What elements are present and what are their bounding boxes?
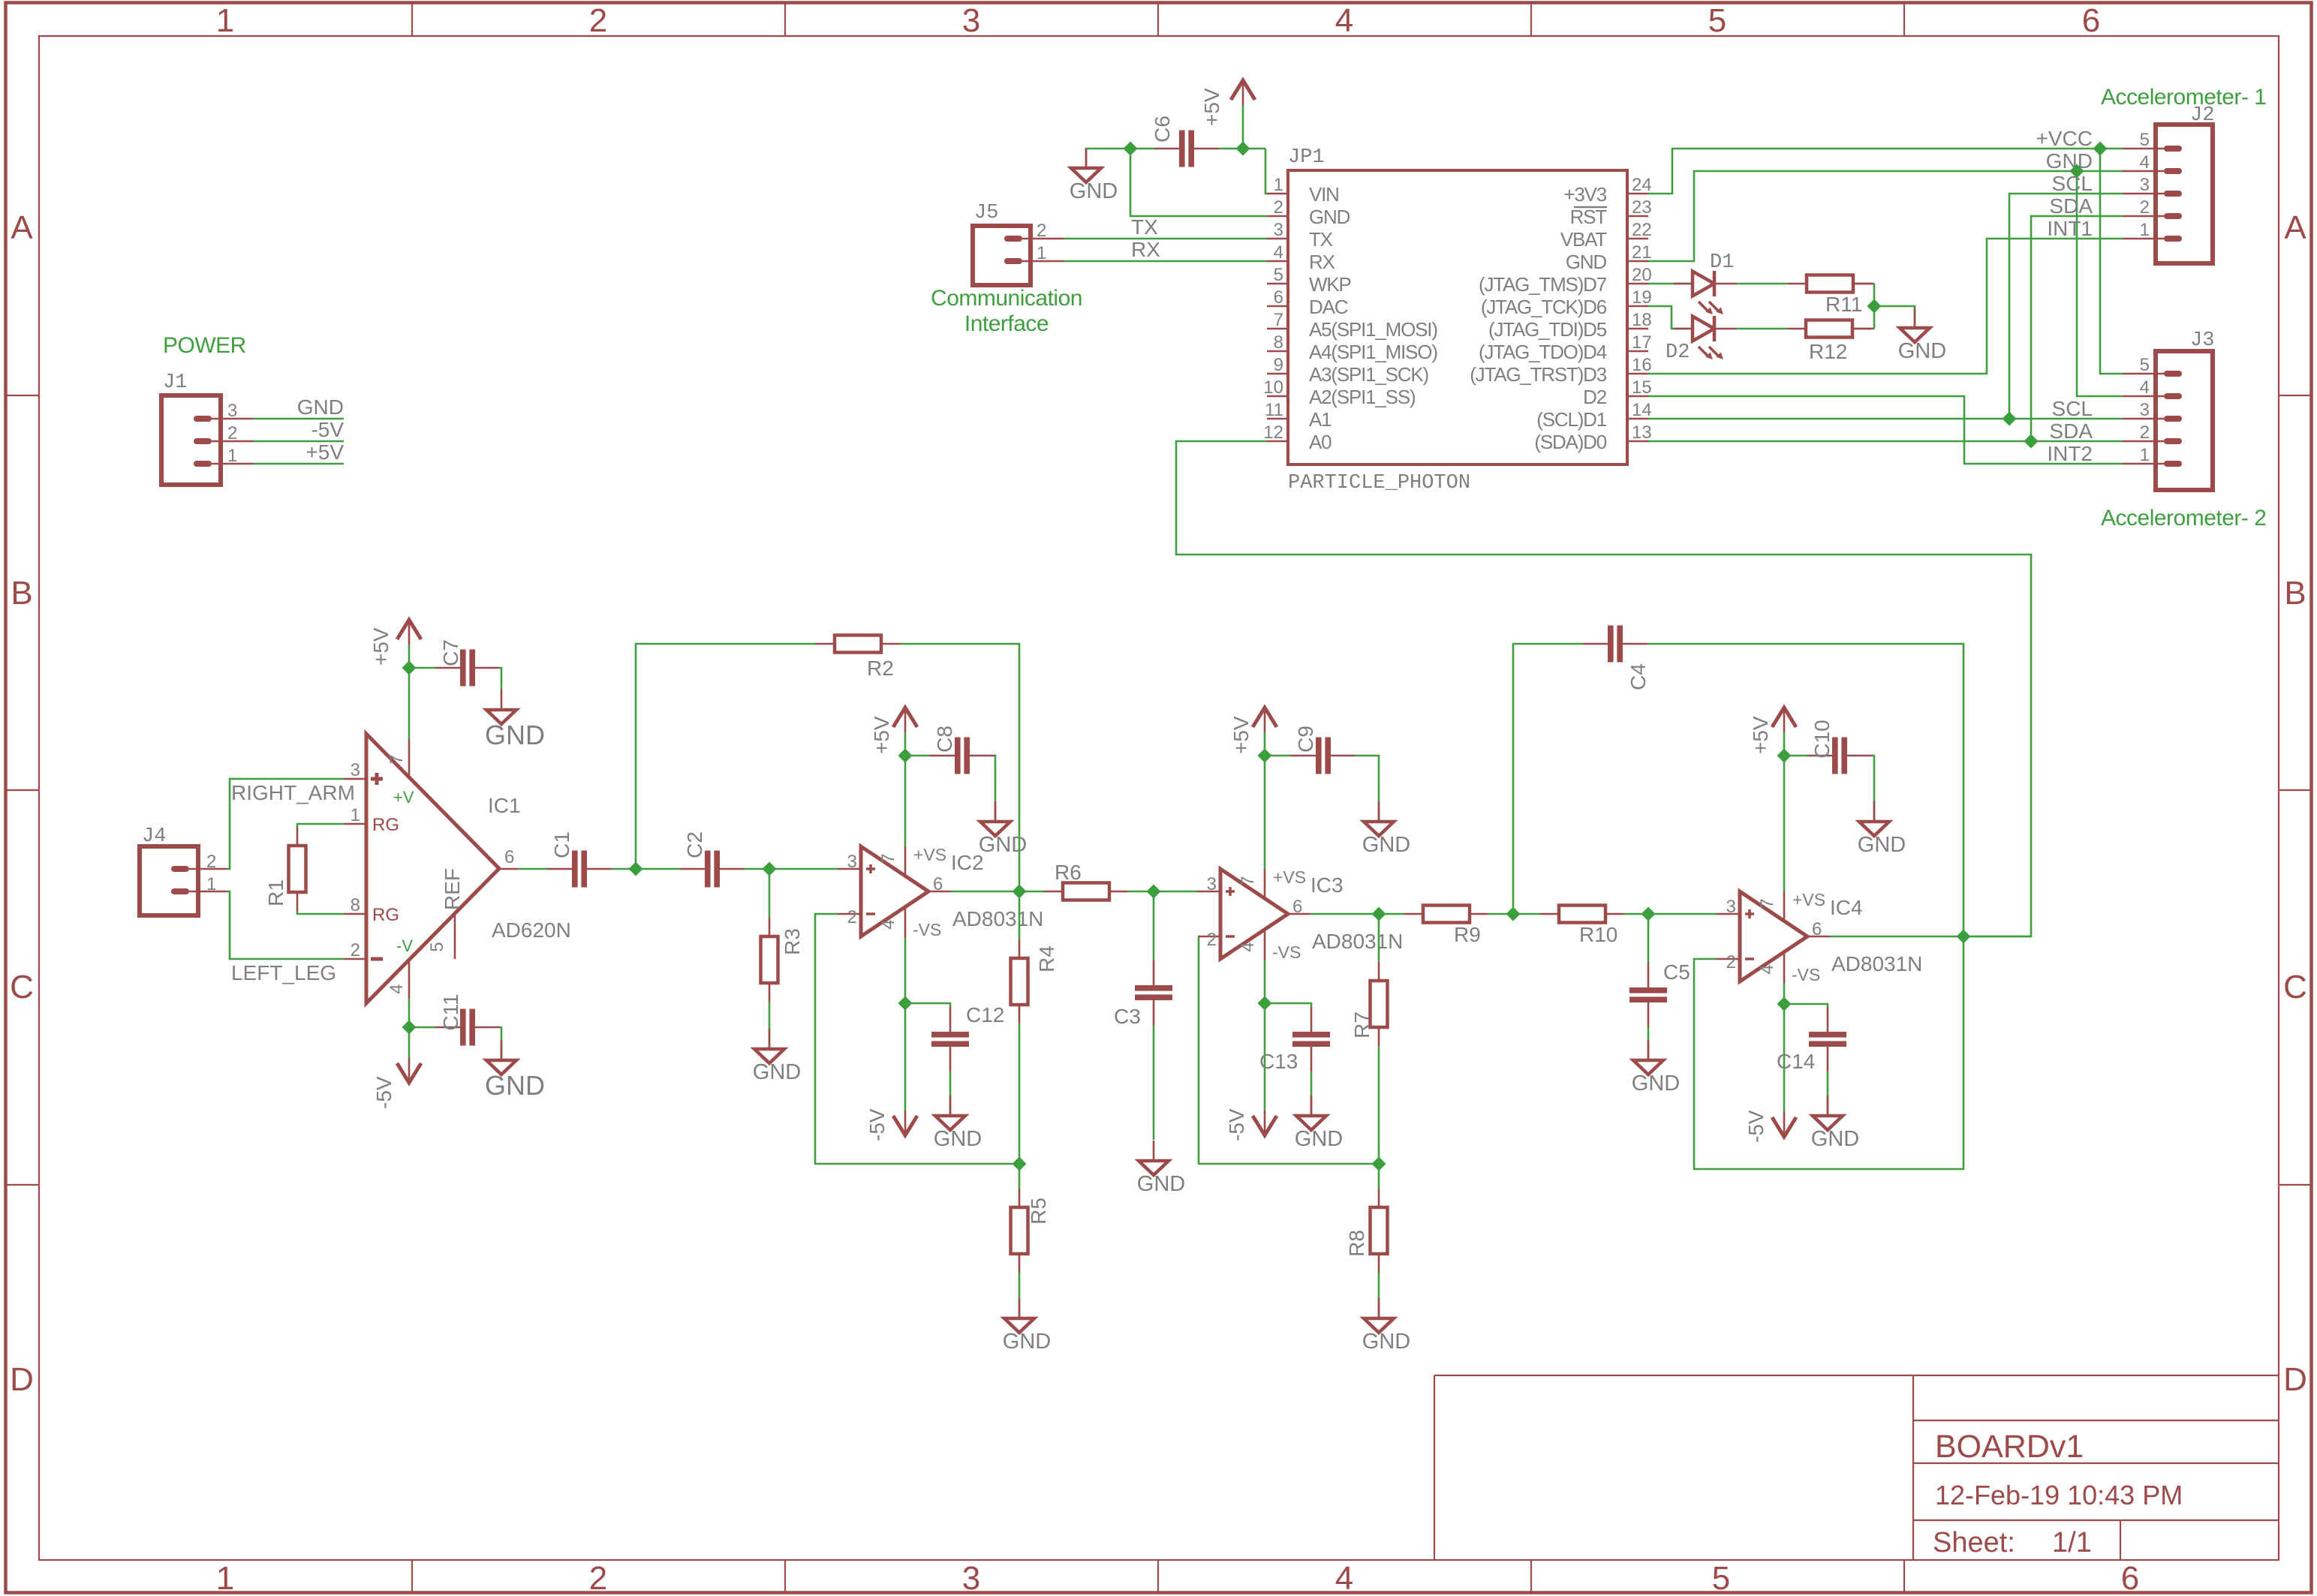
power symbol -5V at IC4 xyxy=(1744,1110,1796,1143)
svg-text:6: 6 xyxy=(2121,1560,2139,1596)
LED D1 xyxy=(1674,251,1737,314)
svg-text:+5V: +5V xyxy=(1749,716,1772,754)
svg-text:-VS: -VS xyxy=(1792,965,1820,984)
node IC3 -5V xyxy=(1258,996,1272,1011)
wire D1 to R11 xyxy=(1736,283,1788,285)
svg-text:GND: GND xyxy=(1898,339,1946,363)
svg-text:3: 3 xyxy=(847,852,857,872)
svg-text:8: 8 xyxy=(1274,332,1283,353)
svg-text:3: 3 xyxy=(962,1560,980,1596)
svg-text:Communication: Communication xyxy=(931,286,1082,311)
svg-text:GND: GND xyxy=(1137,1172,1185,1196)
svg-text:TX: TX xyxy=(1131,215,1158,239)
ground symbol for C7 xyxy=(485,690,545,750)
svg-text:R1: R1 xyxy=(264,879,287,906)
wire R3 to ground xyxy=(769,1002,771,1049)
title block border xyxy=(1434,1375,2279,1560)
wire C3 to ground xyxy=(1153,1025,1155,1140)
svg-text:24: 24 xyxy=(1632,175,1652,195)
wire INT2 net from JP1 pin 15 to J3 pin 1 xyxy=(1648,396,2123,465)
svg-text:C6: C6 xyxy=(1151,116,1174,143)
capacitor C10 xyxy=(1784,720,1872,774)
svg-text:4: 4 xyxy=(2140,152,2150,173)
wire C11 to ground xyxy=(500,1027,501,1060)
svg-text:D: D xyxy=(10,1361,34,1398)
capacitor C4 xyxy=(1583,626,1650,690)
node after C1 xyxy=(629,862,643,876)
svg-text:A: A xyxy=(11,209,33,246)
wire IC2 -5V down xyxy=(904,1003,907,1111)
svg-text:7: 7 xyxy=(878,853,898,863)
wire node to C2 xyxy=(636,868,680,870)
svg-text:SCL: SCL xyxy=(2052,397,2093,420)
node IC1 -5V xyxy=(402,1020,417,1035)
node R11 R12 junction xyxy=(1867,299,1882,314)
node IC4 +5V xyxy=(1777,749,1792,763)
svg-text:RST: RST xyxy=(1570,206,1608,228)
svg-text:7: 7 xyxy=(1238,876,1258,885)
svg-text:12: 12 xyxy=(1263,422,1283,443)
frame column labels bottom xyxy=(216,1560,2139,1596)
resistor R3 xyxy=(761,918,805,1002)
wire IC2 pin 2 feedback loop xyxy=(815,914,1019,1164)
wire JP1 pin 19 to D2 xyxy=(1648,306,1693,329)
svg-text:+5V: +5V xyxy=(369,627,393,666)
svg-text:17: 17 xyxy=(1632,332,1652,353)
LED D2 xyxy=(1666,316,1737,364)
frame column ticks top xyxy=(412,3,1904,37)
resistor R9 xyxy=(1404,906,1488,947)
svg-text:1: 1 xyxy=(2140,445,2150,465)
ground symbol for R3 xyxy=(753,1029,801,1084)
resistor R11 xyxy=(1788,275,1874,317)
ground symbol for C12 xyxy=(934,1096,982,1151)
svg-text:1: 1 xyxy=(206,874,216,894)
svg-text:RX: RX xyxy=(1309,251,1335,273)
svg-text:3: 3 xyxy=(351,760,360,780)
node IC3 output xyxy=(1372,907,1386,921)
ground symbol for C9 xyxy=(1362,801,1410,857)
ground symbol for C3 xyxy=(1137,1141,1185,1196)
svg-text:3: 3 xyxy=(962,2,980,39)
svg-text:2: 2 xyxy=(847,907,857,927)
svg-text:INT2: INT2 xyxy=(2047,442,2093,465)
svg-text:2: 2 xyxy=(589,1560,607,1596)
svg-text:D2: D2 xyxy=(1583,386,1607,408)
svg-text:4: 4 xyxy=(1757,964,1777,974)
capacitor C3 xyxy=(1114,960,1172,1028)
svg-text:VIN: VIN xyxy=(1309,183,1339,206)
power symbol -5V at IC2 xyxy=(865,1108,917,1141)
svg-text:A2(SPI1_SS): A2(SPI1_SS) xyxy=(1309,386,1416,408)
svg-text:IC4: IC4 xyxy=(1830,896,1863,919)
ground symbol for R5 xyxy=(1003,1298,1051,1354)
wire node down to C5 xyxy=(1647,914,1650,963)
svg-text:INT1: INT1 xyxy=(2047,217,2093,240)
svg-text:1: 1 xyxy=(2140,220,2150,240)
svg-text:(SDA)D0: (SDA)D0 xyxy=(1534,431,1606,453)
svg-text:C7: C7 xyxy=(439,639,462,666)
capacitor C5 xyxy=(1629,960,1690,1027)
wire R4 to bottom node xyxy=(1019,1023,1021,1164)
power symbol +5V at IC1 xyxy=(369,620,421,739)
svg-text:5: 5 xyxy=(1274,265,1283,285)
svg-text:GND: GND xyxy=(1858,833,1906,857)
power symbol +5V at IC3 xyxy=(1229,708,1277,756)
wire C10 to ground xyxy=(1872,756,1874,822)
svg-text:SDA: SDA xyxy=(2049,194,2093,218)
svg-text:2: 2 xyxy=(227,423,237,443)
svg-text:J3: J3 xyxy=(2190,329,2214,352)
svg-text:GND: GND xyxy=(1632,1072,1680,1096)
title block document name BOARDv1 xyxy=(1935,1429,2084,1465)
section label Accelerometer- 1 xyxy=(2101,85,2266,110)
svg-text:7: 7 xyxy=(1274,310,1283,330)
frame row ticks left xyxy=(6,395,40,1185)
wire +VCC net from JP1 pin 24 to J2 pin 5 and J3 pin 5 xyxy=(1648,127,2123,374)
frame column labels top xyxy=(216,2,2100,39)
svg-text:IC3: IC3 xyxy=(1310,873,1344,897)
svg-text:16: 16 xyxy=(1632,355,1652,375)
wire IC1 pin 4 to -5V xyxy=(408,998,411,1058)
svg-text:GND: GND xyxy=(934,1127,982,1151)
svg-text:(JTAG_TDO)D4: (JTAG_TDO)D4 xyxy=(1479,341,1607,363)
svg-text:4: 4 xyxy=(2140,377,2150,398)
node at +5V near JP1 xyxy=(1236,142,1250,156)
node IC3 bottom xyxy=(1372,1157,1386,1171)
svg-text:GND: GND xyxy=(753,1060,801,1084)
svg-text:-5V: -5V xyxy=(1225,1108,1248,1141)
svg-text:C12: C12 xyxy=(966,1003,1004,1026)
svg-text:WKP: WKP xyxy=(1309,273,1351,296)
svg-text:2: 2 xyxy=(1726,952,1736,972)
svg-text:-5V: -5V xyxy=(372,1076,396,1109)
svg-text:J5: J5 xyxy=(974,202,998,224)
IC1 pin 4 V- stub xyxy=(387,960,409,998)
svg-text:R7: R7 xyxy=(1350,1011,1374,1038)
svg-text:2: 2 xyxy=(2140,422,2150,443)
svg-text:4: 4 xyxy=(387,984,407,993)
svg-text:BOARDv1: BOARDv1 xyxy=(1935,1429,2084,1465)
svg-text:3: 3 xyxy=(2140,400,2150,420)
wire -5V from J1 pin 2 xyxy=(253,418,344,441)
svg-text:+VS: +VS xyxy=(913,845,946,864)
ground symbol for C11 xyxy=(485,1040,545,1101)
wire R1 bottom to IC1 pin 8 RG xyxy=(297,895,366,915)
svg-text:2: 2 xyxy=(1274,197,1283,218)
capacitor C8 xyxy=(905,726,995,774)
svg-text:B: B xyxy=(2284,575,2306,612)
svg-text:RIGHT_ARM: RIGHT_ARM xyxy=(231,781,355,804)
svg-text:5: 5 xyxy=(427,942,447,951)
svg-text:R2: R2 xyxy=(867,657,894,680)
wire from node down to JP1 pin 2 xyxy=(1130,149,1267,216)
op-amp IC4 AD8031N xyxy=(1717,890,1922,984)
svg-text:GND: GND xyxy=(2046,149,2093,173)
svg-text:GND: GND xyxy=(979,833,1027,857)
wire GND to C6 xyxy=(1086,148,1154,150)
wire IC4 output xyxy=(1807,936,2031,938)
node IC4 -5V xyxy=(1777,997,1792,1011)
svg-text:3: 3 xyxy=(1207,874,1217,894)
wire IC4 pin 2 feedback loop xyxy=(1694,936,1963,1169)
IC4 pin 7 stub xyxy=(1783,756,1786,921)
wire +5V node down to JP1 pin 1 xyxy=(1265,149,1267,194)
svg-text:AD620N: AD620N xyxy=(492,918,571,942)
svg-text:D2: D2 xyxy=(1666,341,1690,364)
svg-text:SDA: SDA xyxy=(2049,419,2093,443)
svg-text:4: 4 xyxy=(1335,2,1353,39)
svg-text:C5: C5 xyxy=(1663,960,1690,984)
svg-text:(JTAG_TMS)D7: (JTAG_TMS)D7 xyxy=(1479,273,1607,296)
svg-text:GND: GND xyxy=(485,1070,545,1101)
wire IC3 output down to R7 xyxy=(1378,914,1380,962)
svg-text:C10: C10 xyxy=(1810,720,1834,758)
svg-text:2: 2 xyxy=(1037,221,1046,241)
svg-text:RX: RX xyxy=(1131,238,1160,261)
wire node to IC4 pin 3 xyxy=(1648,913,1717,915)
svg-text:-VS: -VS xyxy=(913,920,941,939)
svg-text:7: 7 xyxy=(1757,898,1777,908)
svg-text:3: 3 xyxy=(227,401,237,421)
svg-text:GND: GND xyxy=(1566,251,1607,273)
frame row labels left xyxy=(10,209,34,1398)
svg-text:1/1: 1/1 xyxy=(2052,1527,2092,1558)
svg-text:C2: C2 xyxy=(683,831,706,858)
svg-text:+5V: +5V xyxy=(305,440,344,464)
svg-text:C: C xyxy=(10,969,34,1005)
svg-text:+5V: +5V xyxy=(1229,716,1253,754)
wire C4 to IC4 output xyxy=(1647,644,1963,936)
capacitor C12 xyxy=(905,1003,1004,1072)
svg-text:Interface: Interface xyxy=(964,311,1049,336)
svg-text:5: 5 xyxy=(2140,355,2150,375)
op-amp IC2 AD8031N xyxy=(838,845,1043,939)
svg-text:A: A xyxy=(2284,209,2306,246)
svg-text:1: 1 xyxy=(1037,243,1046,263)
svg-text:A1: A1 xyxy=(1309,408,1332,431)
svg-text:J2: J2 xyxy=(2190,104,2214,127)
svg-text:(JTAG_TCK)D6: (JTAG_TCK)D6 xyxy=(1481,296,1607,318)
svg-text:R4: R4 xyxy=(1035,945,1058,972)
resistor R8 xyxy=(1345,1164,1388,1273)
svg-text:+5V: +5V xyxy=(1200,88,1223,126)
svg-text:+V: +V xyxy=(393,788,414,807)
power symbol -5V at IC1 xyxy=(372,1058,421,1109)
resistor R1 xyxy=(264,827,306,911)
ground symbol for C13 xyxy=(1295,1096,1343,1151)
svg-text:6: 6 xyxy=(1274,287,1283,308)
svg-text:J1: J1 xyxy=(163,371,187,394)
ground symbol for C8 xyxy=(979,801,1027,857)
wire node up to C4 xyxy=(1513,644,1583,914)
svg-text:-V: -V xyxy=(396,936,413,955)
svg-text:2: 2 xyxy=(589,2,607,39)
wire C9 to ground xyxy=(1356,756,1379,822)
wire IC1 output pin 6 xyxy=(499,847,547,869)
resistor R2 xyxy=(816,636,900,681)
wire IC3 output to R9 xyxy=(1379,913,1404,915)
svg-text:C14: C14 xyxy=(1777,1050,1815,1073)
node at C6 left xyxy=(1124,142,1138,156)
svg-text:1: 1 xyxy=(227,446,237,466)
svg-text:10: 10 xyxy=(1263,377,1283,398)
wire C5 to ground xyxy=(1647,1027,1650,1060)
wire C7 to ground xyxy=(500,668,501,690)
wire C6 to +5V node xyxy=(1219,148,1265,150)
svg-text:GND: GND xyxy=(485,720,545,750)
wire IC3 pin 2 feedback loop xyxy=(1199,937,1379,1164)
svg-text:12-Feb-19 10:43 PM: 12-Feb-19 10:43 PM xyxy=(1935,1480,2183,1510)
section label Accelerometer- 2 xyxy=(2101,506,2266,530)
svg-text:3: 3 xyxy=(2140,175,2150,195)
svg-text:20: 20 xyxy=(1632,265,1652,285)
svg-text:(SCL)D1: (SCL)D1 xyxy=(1536,408,1606,431)
svg-text:JP1: JP1 xyxy=(1288,146,1325,169)
capacitor C2 xyxy=(680,831,745,887)
wire R11 R12 common to GND xyxy=(1874,284,1915,329)
node SCL xyxy=(2003,412,2017,426)
svg-text:-5V: -5V xyxy=(1744,1110,1768,1143)
IC3 pin 7 stub xyxy=(1264,756,1266,898)
wire RIGHT_ARM net from J4 pin 2 to IC1 pin 3 xyxy=(227,779,366,869)
svg-text:(JTAG_TRST)D3: (JTAG_TRST)D3 xyxy=(1470,363,1607,386)
svg-text:6: 6 xyxy=(933,874,943,894)
svg-text:+VCC: +VCC xyxy=(2036,127,2093,150)
svg-text:23: 23 xyxy=(1632,197,1652,218)
svg-text:+VS: +VS xyxy=(1792,890,1825,909)
svg-text:SCL: SCL xyxy=(2052,172,2093,195)
connector J5 xyxy=(973,202,1064,285)
node +VCC xyxy=(2093,142,2108,156)
svg-text:C: C xyxy=(2283,969,2307,1005)
svg-text:B: B xyxy=(11,575,32,612)
svg-text:GND: GND xyxy=(297,395,344,419)
svg-text:1: 1 xyxy=(216,2,234,39)
wire R2 to IC2 output node xyxy=(900,644,1019,891)
svg-text:5: 5 xyxy=(1708,2,1726,39)
svg-text:AD8031N: AD8031N xyxy=(1312,930,1403,953)
wire GND net from JP1 pin 21 to J2 pin 4 and J3 pin 4 xyxy=(1648,149,2123,396)
svg-text:GND: GND xyxy=(1309,206,1350,228)
svg-text:TX: TX xyxy=(1309,228,1333,251)
op-amp IC3 AD8031N xyxy=(1197,867,1403,962)
svg-text:A5(SPI1_MOSI): A5(SPI1_MOSI) xyxy=(1309,318,1437,341)
wire IC2 output to R6 xyxy=(1019,891,1044,893)
svg-text:22: 22 xyxy=(1632,220,1652,240)
svg-text:D1: D1 xyxy=(1710,251,1734,274)
connector J4 xyxy=(140,825,227,915)
resistor R12 xyxy=(1787,320,1874,364)
svg-text:19: 19 xyxy=(1632,287,1652,308)
svg-text:REF: REF xyxy=(441,868,464,910)
svg-text:2: 2 xyxy=(1207,930,1217,950)
svg-text:VBAT: VBAT xyxy=(1560,228,1607,251)
svg-text:4: 4 xyxy=(1274,242,1283,263)
svg-text:PARTICLE_PHOTON: PARTICLE_PHOTON xyxy=(1288,472,1470,494)
svg-text:2: 2 xyxy=(351,940,360,960)
svg-text:R6: R6 xyxy=(1055,861,1082,884)
connector J2 xyxy=(2123,104,2214,263)
svg-text:18: 18 xyxy=(1632,310,1652,330)
svg-text:GND: GND xyxy=(1362,833,1410,857)
svg-text:(JTAG_TDI)D5: (JTAG_TDI)D5 xyxy=(1488,318,1607,341)
capacitor C6 xyxy=(1151,116,1219,167)
IC3 pin 4 stub xyxy=(1264,930,1266,1003)
capacitor C9 xyxy=(1265,726,1356,774)
wire IC4 -5V down xyxy=(1783,1004,1786,1112)
svg-text:A4(SPI1_MISO): A4(SPI1_MISO) xyxy=(1309,341,1437,363)
svg-text:R5: R5 xyxy=(1027,1198,1050,1225)
section label Communication Interface xyxy=(931,286,1082,336)
svg-text:RG: RG xyxy=(372,905,399,925)
svg-text:-VS: -VS xyxy=(1272,942,1301,962)
wire INT1 net from JP1 pin 16 to J2 pin 1 xyxy=(1648,217,2123,374)
wire TX net xyxy=(1064,215,1267,239)
node IC3 +5V xyxy=(1258,749,1272,763)
svg-text:IC1: IC1 xyxy=(488,794,521,817)
svg-text:J4: J4 xyxy=(142,825,166,848)
node IC2 +5V xyxy=(898,749,913,763)
svg-text:AD8031N: AD8031N xyxy=(1831,952,1922,975)
wire node down to C3 xyxy=(1153,891,1155,960)
resistor R10 xyxy=(1540,906,1624,947)
svg-text:4: 4 xyxy=(878,919,898,929)
wire C13 to ground xyxy=(1310,1072,1313,1116)
node IC4 output xyxy=(1957,930,1971,944)
svg-text:LEFT_LEG: LEFT_LEG xyxy=(231,961,336,984)
IC JP1 PARTICLE_PHOTON module xyxy=(1263,146,1651,494)
wire R5 to ground xyxy=(1019,1273,1021,1318)
wire node down to R3 xyxy=(769,869,771,918)
wire D2 to R12 xyxy=(1736,328,1787,330)
ground symbol for C14 xyxy=(1811,1096,1859,1151)
title block sheet xyxy=(1933,1527,2092,1558)
wire SCL net from JP1 pin 14 to J2 pin 3 and J3 pin 3 xyxy=(1648,172,2123,420)
svg-text:C3: C3 xyxy=(1114,1005,1141,1028)
wire R1 top to IC1 pin 1 RG xyxy=(297,805,366,827)
wire LEFT_LEG net from J4 pin 1 to IC1 pin 2 xyxy=(227,891,366,984)
svg-text:5: 5 xyxy=(1712,1560,1730,1596)
svg-text:R3: R3 xyxy=(781,928,804,955)
svg-text:GND: GND xyxy=(1295,1127,1343,1151)
node IC1 +5V xyxy=(402,661,417,675)
wire R7 to bottom node xyxy=(1378,1046,1380,1164)
wire RX net xyxy=(1064,238,1267,261)
capacitor C14 xyxy=(1777,1004,1846,1073)
svg-text:GND: GND xyxy=(1811,1127,1859,1151)
svg-text:C9: C9 xyxy=(1294,726,1317,753)
power symbol +5V at IC2 xyxy=(870,708,917,756)
svg-text:5: 5 xyxy=(2140,130,2150,150)
wire IC3 output to node xyxy=(1310,913,1379,915)
wire C14 to ground xyxy=(1827,1072,1829,1116)
svg-text:-5V: -5V xyxy=(865,1108,889,1141)
ground symbol for C10 xyxy=(1858,801,1906,857)
svg-text:GND: GND xyxy=(1362,1330,1410,1354)
svg-text:+3V3: +3V3 xyxy=(1563,183,1606,206)
svg-text:DAC: DAC xyxy=(1309,296,1348,318)
node between R10 and IC4 xyxy=(1641,907,1656,921)
svg-text:R11: R11 xyxy=(1825,293,1862,316)
resistor R5 xyxy=(1011,1164,1051,1273)
svg-text:2: 2 xyxy=(206,852,216,872)
node at IC2 input xyxy=(763,862,777,876)
node between R9 and R10 xyxy=(1506,907,1521,921)
svg-text:21: 21 xyxy=(1632,242,1652,263)
svg-text:2: 2 xyxy=(2140,197,2150,218)
node IC2 output xyxy=(1013,885,1027,899)
